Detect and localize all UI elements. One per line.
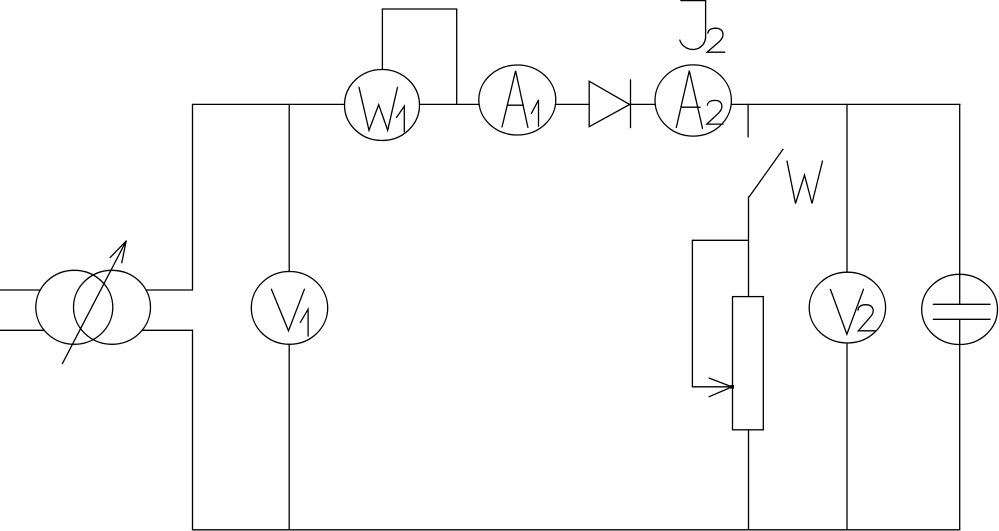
transformer T1 circle 2 — [74, 270, 151, 344]
ammeter A2 label A — [676, 71, 702, 129]
voltmeter V2 circle — [809, 272, 885, 343]
wire: input bottom-left — [0, 329, 44, 331]
switch W label — [787, 161, 823, 204]
wire: switch to rheostat — [748, 197, 750, 297]
wire: rheostat bottom to rail — [748, 430, 750, 530]
switch W blade — [749, 149, 783, 197]
label J2 (current designation above A2) letter J — [680, 1, 706, 50]
transformer T1 (autotransformer) circle 1 — [36, 270, 113, 344]
transformer T1 adjustment arrow — [62, 241, 126, 364]
wire: V1 branch upper — [288, 104, 290, 271]
wire: capacitor branch upper — [959, 104, 961, 304]
wire: vertical up to top rail — [192, 104, 194, 290]
voltmeter V2 label V — [830, 289, 863, 334]
switch W upper stub — [747, 104, 749, 136]
ammeter A1 label A — [502, 71, 528, 128]
capacitor C top plate — [933, 303, 990, 305]
capacitor C circle — [922, 274, 998, 344]
wire: top rail segment 3 — [555, 103, 589, 105]
label J2 subscript 2 — [707, 28, 725, 52]
ammeter A1 label subscript 1 — [531, 100, 538, 126]
ammeter A1 circle — [479, 65, 556, 135]
wire: input top-left — [0, 289, 40, 291]
wire: V2 branch upper — [846, 104, 848, 272]
wire: rheostat bypass left vertical — [691, 240, 693, 386]
wire: top rail segment 5 — [731, 103, 960, 105]
wattmeter W1 label W — [359, 87, 398, 130]
wire: top rail segment 2 — [419, 103, 479, 105]
rheostat wiper arrow — [692, 378, 734, 397]
wire: capacitor branch lower — [959, 319, 961, 529]
voltmeter V1 label subscript 1 — [300, 309, 308, 336]
wire: rheostat bypass top — [692, 239, 748, 241]
wire: transformer upper output to corner — [146, 289, 193, 291]
wire: top rail segment 4 — [631, 103, 656, 105]
wire: V2 branch lower — [846, 343, 848, 529]
wire: V1 branch lower — [288, 344, 290, 529]
capacitor C bottom plate — [933, 318, 990, 320]
wire: vertical down to bottom rail — [192, 330, 194, 529]
rheostat R body — [733, 297, 764, 430]
ammeter A2 circle — [655, 65, 731, 136]
diode D1 cathode bar — [630, 80, 632, 128]
wire: top rail segment 1 — [193, 103, 345, 105]
ammeter A2 label subscript 2 — [707, 100, 723, 124]
wattmeter W1 circle — [345, 70, 420, 141]
wattmeter W1 label subscript 1 — [397, 106, 405, 132]
voltmeter V1 circle — [251, 272, 327, 345]
voltmeter V1 label V — [271, 289, 304, 331]
wire: bottom rail — [193, 529, 960, 531]
wire: transformer lower output to corner — [142, 329, 192, 331]
wire: W1 voltage coil loop — [382, 9, 456, 104]
diode D1 triangle — [589, 81, 630, 127]
voltmeter V2 label subscript 2 — [858, 305, 875, 331]
